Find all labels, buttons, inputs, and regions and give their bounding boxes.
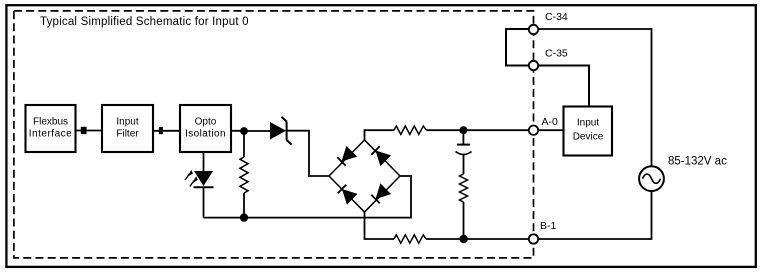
wire resistor R3 to node N4 [463,202,465,239]
wire bridge bottom corner to bottom rail [365,212,395,239]
bridge diode bottom-right [371,183,391,203]
wire terminal C-34 to AC source [538,29,652,166]
node N2 junction dot [240,213,248,221]
wire node N3 to capacitor C1 [462,130,464,144]
arrowhead into Input Filter [159,127,163,134]
dashed enclosure (module boundary) [14,11,534,258]
box Opto Isolation [180,105,231,152]
wire LED to bottom rail [203,187,205,217]
node N4 junction dot [459,235,467,243]
svg-text:Input: Input [577,118,599,129]
wire resistor R2 to terminal A-0 [427,129,530,131]
box Flexbus Interface [26,105,76,152]
svg-text:85-132V ac: 85-132V ac [668,156,727,168]
capacitor C1 [456,145,472,155]
LED D1 (opto emitter) [194,171,214,187]
zener diode CR1 [248,117,292,145]
resistor R2 (horizontal, top rail) [394,126,427,134]
svg-text:B-1: B-1 [540,220,557,232]
terminal A-0 [529,126,538,135]
terminal C-35 [529,61,538,70]
arrowhead into Flexbus Interface [81,127,87,134]
wire bridge top corner to top rail [365,130,395,140]
terminal C-34 [529,25,538,34]
box Input Device [564,107,613,156]
bridge diode top-left [337,146,357,166]
wire Opto Isolation bottom to LED [203,152,205,171]
wire Input Filter to Flexbus Interface [77,130,103,132]
LED light arrows [185,170,198,187]
svg-text:Opto: Opto [195,117,217,128]
wire AC source to B-1 rail [538,191,652,239]
wire terminal C-35 to Input Device top [538,66,589,107]
svg-text:C-34: C-34 [545,11,568,23]
wire resistor R4 to terminal B-1 [426,238,529,240]
jumper bracket C-34 to C-35 [506,29,529,66]
wire node N1 down to resistor R1 [243,131,245,157]
node N3 junction dot [459,126,467,134]
wire bottom rail of opto circuit [204,176,412,218]
svg-text:Interface: Interface [29,129,72,140]
box Input Filter [102,105,153,152]
svg-text:Isolation: Isolation [185,129,226,140]
wire capacitor C1 to resistor R3 [463,155,465,174]
svg-text:A-0: A-0 [542,116,559,128]
svg-text:Filter: Filter [116,129,139,140]
resistor R3 (vertical) [460,174,468,202]
wire terminal A-0 to Input Device [538,129,563,131]
svg-text:Typical Simplified Schematic f: Typical Simplified Schematic for Input 0 [40,16,249,28]
AC source V1 [639,166,664,191]
node N1 junction dot [240,127,248,135]
wire Opto Isolation to Input Filter [154,130,180,132]
svg-text:Device: Device [573,132,604,143]
resistor R1 (vertical) [240,157,248,193]
svg-text:C-35: C-35 [545,48,568,60]
bridge diode top-right [371,146,391,166]
diode bridge BR1 frame [329,140,400,212]
wire Opto Isolation output to node N1 [231,130,248,132]
svg-text:Flexbus: Flexbus [33,117,68,128]
resistor R4 (horizontal, bottom rail) [394,235,426,243]
wire resistor R1 to node N2 [243,193,245,218]
bridge diode bottom-left [338,185,358,205]
wire zener to bridge left corner [287,131,329,176]
svg-text:Input: Input [116,117,138,128]
terminal B-1 [529,234,538,243]
